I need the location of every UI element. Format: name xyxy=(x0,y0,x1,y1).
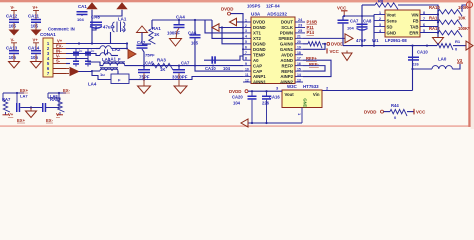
ground xyxy=(31,30,42,36)
svg-text:12: 12 xyxy=(245,78,249,82)
svg-text:VCC: VCC xyxy=(330,49,340,54)
left pin bus xyxy=(373,15,375,46)
svg-text:CA10: CA10 xyxy=(417,49,428,54)
wire XT2 xyxy=(212,20,243,38)
svg-text:CA13: CA13 xyxy=(6,45,18,50)
wire LA1 drop xyxy=(110,32,112,44)
svg-text:AINP2: AINP2 xyxy=(280,74,293,79)
svg-text:SCLK: SCLK xyxy=(281,25,294,30)
svg-text:104: 104 xyxy=(233,101,241,106)
ground xyxy=(9,30,20,36)
ferrite bead FB1 xyxy=(111,74,129,84)
wire xyxy=(35,54,37,61)
power V+ arrow B xyxy=(117,3,127,9)
capacitor CA9 xyxy=(77,11,88,13)
pin VIN xyxy=(420,14,438,16)
svg-text:PDWN: PDWN xyxy=(280,31,293,36)
svg-text:75PF: 75PF xyxy=(145,53,155,58)
pin GND xyxy=(374,32,385,34)
ground arrow down xyxy=(342,53,352,61)
svg-text:CA16: CA16 xyxy=(269,95,280,100)
svg-text:DVDD: DVDD xyxy=(229,89,241,94)
power V3 xyxy=(452,64,460,69)
svg-text:9: 9 xyxy=(245,62,247,66)
pin 3 xyxy=(53,53,66,55)
wire xyxy=(141,33,143,45)
ground xyxy=(31,62,42,69)
pin 7 xyxy=(53,73,66,75)
capacitor CB2 xyxy=(85,52,91,54)
svg-text:100K*: 100K* xyxy=(458,26,470,31)
svg-text:21: 21 xyxy=(297,35,301,39)
wire xyxy=(13,54,15,61)
svg-text:VCC: VCC xyxy=(337,5,347,10)
svg-text:105: 105 xyxy=(31,55,39,60)
svg-text:DVDD: DVDD xyxy=(253,20,265,25)
pin 2 xyxy=(53,48,66,50)
svg-text:VCC: VCC xyxy=(416,109,426,114)
wire cap tops xyxy=(343,15,374,17)
wire xyxy=(79,70,101,73)
svg-text:Sens: Sens xyxy=(387,18,398,23)
svg-text:DGND: DGND xyxy=(253,42,266,47)
svg-text:LA4: LA4 xyxy=(88,81,97,86)
svg-text:CA8: CA8 xyxy=(91,15,100,20)
svg-text:1u: 1u xyxy=(100,72,105,77)
right pin bus xyxy=(437,5,439,33)
svg-text:ADS1232: ADS1232 xyxy=(267,11,287,16)
svg-text:8: 8 xyxy=(423,11,425,15)
wire xyxy=(231,14,244,22)
svg-text:8: 8 xyxy=(245,56,247,60)
wire to port circle xyxy=(462,5,467,12)
ground xyxy=(9,62,20,69)
svg-text:5: 5 xyxy=(245,40,247,44)
svg-text:V+: V+ xyxy=(33,38,39,43)
right bus wires xyxy=(437,12,439,37)
ground xyxy=(26,111,37,118)
wire xyxy=(361,5,363,46)
wire gnd bottom xyxy=(248,122,302,124)
power VCC xyxy=(407,111,414,113)
svg-text:RA12: RA12 xyxy=(429,26,440,31)
svg-text:47uF: 47uF xyxy=(356,38,367,43)
svg-text:23: 23 xyxy=(298,24,302,28)
wire xyxy=(13,23,15,30)
IC W1 LP2951 xyxy=(385,10,420,37)
svg-text:CA7: CA7 xyxy=(350,19,359,24)
svg-text:10K: 10K xyxy=(458,16,466,21)
wire EX- drop xyxy=(48,92,66,94)
svg-text:EX+: EX+ xyxy=(20,88,29,93)
svg-text:5: 5 xyxy=(423,29,425,33)
svg-text:Vout: Vout xyxy=(285,92,295,97)
svg-text:10SPS: 10SPS xyxy=(247,3,261,8)
svg-text:A0: A0 xyxy=(253,58,259,63)
svg-text:DVDD: DVDD xyxy=(331,41,343,46)
svg-text:LA2: LA2 xyxy=(112,47,121,52)
svg-text:FB: FB xyxy=(413,18,419,23)
pin 1 GND xyxy=(301,108,303,124)
svg-text:REFN: REFN xyxy=(281,69,293,74)
port arrow AGND xyxy=(241,119,248,127)
svg-text:CONA1: CONA1 xyxy=(40,32,56,37)
wire AIN chain xyxy=(125,65,243,67)
diode D1 arrow xyxy=(128,50,136,59)
svg-text:CA4: CA4 xyxy=(176,15,185,20)
port arrow IN pair xyxy=(70,68,79,76)
svg-text:R8: R8 xyxy=(378,0,384,4)
port arrow SPEED xyxy=(345,34,353,43)
svg-text:19: 19 xyxy=(297,46,301,50)
wire IN- xyxy=(66,53,88,55)
wire pin6 xyxy=(53,68,69,70)
svg-text:S-: S- xyxy=(56,58,61,63)
wire XT1 xyxy=(205,20,243,33)
svg-text:V+: V+ xyxy=(33,5,39,10)
svg-text:AVDD: AVDD xyxy=(281,52,293,57)
port arrow right border xyxy=(453,45,466,47)
svg-text:DGND: DGND xyxy=(253,47,266,52)
svg-text:105: 105 xyxy=(9,24,17,29)
pin ERR xyxy=(420,32,438,34)
svg-text:Vout: Vout xyxy=(387,12,397,17)
wire xyxy=(412,46,414,91)
port circle top right xyxy=(467,2,473,8)
svg-text:104: 104 xyxy=(347,25,354,30)
svg-text:V-: V- xyxy=(11,5,16,10)
svg-text:W1: W1 xyxy=(372,38,379,43)
svg-text:20: 20 xyxy=(297,40,301,44)
svg-text:DVDD: DVDD xyxy=(364,109,376,114)
svg-text:3: 3 xyxy=(245,29,247,33)
svg-text:REFP: REFP xyxy=(282,63,294,68)
ground xyxy=(170,39,182,47)
svg-text:LA1: LA1 xyxy=(118,17,127,22)
svg-text:7: 7 xyxy=(245,51,247,55)
svg-text:TAB: TAB xyxy=(410,24,419,29)
svg-text:LP2951-08: LP2951-08 xyxy=(385,38,407,43)
svg-text:3: 3 xyxy=(379,23,381,27)
pin FB xyxy=(420,20,438,22)
svg-text:W3C: W3C xyxy=(287,84,298,89)
svg-text:REF-: REF- xyxy=(309,62,319,67)
svg-text:DOUT: DOUT xyxy=(281,20,294,25)
svg-text:1u: 1u xyxy=(91,49,95,53)
wire V- xyxy=(66,58,88,60)
wire Vout xyxy=(248,90,282,92)
svg-text:SPEED: SPEED xyxy=(278,36,293,41)
pin 4 xyxy=(53,58,66,60)
power arrow xyxy=(137,26,148,33)
svg-text:CA8: CA8 xyxy=(363,19,372,24)
svg-text:25: 25 xyxy=(298,29,302,33)
svg-text:RA10: RA10 xyxy=(429,5,440,10)
svg-text:GND: GND xyxy=(387,30,397,35)
svg-text:104: 104 xyxy=(77,17,84,22)
svg-text:100PF: 100PF xyxy=(167,30,180,35)
svg-text:CAP: CAP xyxy=(253,63,262,68)
capacitor CA18 xyxy=(16,104,18,108)
svg-text:1K: 1K xyxy=(154,32,159,37)
svg-text:V-: V- xyxy=(11,38,16,43)
svg-text:4: 4 xyxy=(379,29,381,33)
svg-text:RA1: RA1 xyxy=(152,26,161,31)
svg-text:EX+: EX+ xyxy=(17,118,26,123)
resistor R1 xyxy=(437,43,453,50)
capacitor CA19 xyxy=(42,103,44,112)
svg-text:13: 13 xyxy=(297,78,301,82)
svg-text:1K: 1K xyxy=(160,67,165,72)
svg-text:105: 105 xyxy=(9,55,17,60)
svg-text:V3: V3 xyxy=(457,58,463,63)
svg-text:226: 226 xyxy=(412,61,419,66)
wire S- xyxy=(66,63,70,65)
wire EX- xyxy=(66,48,100,50)
svg-text:GAIN0: GAIN0 xyxy=(280,42,294,47)
svg-text:V+: V+ xyxy=(8,112,14,117)
port arrow DGND xyxy=(212,24,219,32)
capacitor CA16 xyxy=(262,96,271,98)
capacitor CB4 xyxy=(85,61,91,63)
svg-text:VIN: VIN xyxy=(411,12,418,17)
svg-text:1: 1 xyxy=(379,11,381,15)
svg-text:CA11: CA11 xyxy=(28,13,40,18)
wire xyxy=(35,23,37,30)
svg-text:1: 1 xyxy=(245,18,247,22)
wire EX+ drop xyxy=(2,93,4,100)
wires REF/AIN right loops xyxy=(303,60,331,76)
svg-text:2: 2 xyxy=(245,24,247,28)
pin Vout xyxy=(374,14,385,16)
svg-text:AINN1: AINN1 xyxy=(253,80,267,85)
left pin bus xyxy=(242,22,244,60)
svg-text:18: 18 xyxy=(297,51,301,55)
wire AVDD rail xyxy=(343,45,437,47)
svg-text:XT2: XT2 xyxy=(253,36,261,41)
wire xyxy=(92,26,96,30)
pin Sens xyxy=(374,20,385,22)
svg-text:DGND: DGND xyxy=(253,25,266,30)
svg-text:17: 17 xyxy=(297,56,301,60)
resistor R44 xyxy=(384,111,391,113)
port arrow DVDD pin xyxy=(230,18,237,26)
svg-text:LA3: LA3 xyxy=(102,57,111,62)
wire Vin xyxy=(322,90,413,92)
wire to gnd xyxy=(30,108,32,112)
svg-text:AGND: AGND xyxy=(280,58,293,63)
wire xyxy=(91,10,93,44)
svg-text:15: 15 xyxy=(297,67,301,71)
wire pin7 xyxy=(53,73,69,75)
svg-text:1u: 1u xyxy=(79,49,83,53)
svg-text:CA1: CA1 xyxy=(78,4,87,9)
pin SD xyxy=(374,26,385,28)
svg-text:CA10: CA10 xyxy=(205,66,216,71)
svg-text:EX-: EX- xyxy=(63,88,71,93)
pin 5 xyxy=(53,63,66,65)
svg-text:CA7: CA7 xyxy=(181,60,190,65)
resistor RA5 to DVDD xyxy=(303,43,308,45)
svg-text:CA12: CA12 xyxy=(6,13,18,18)
svg-text:3300PF: 3300PF xyxy=(172,75,188,80)
svg-text:10: 10 xyxy=(245,67,249,71)
svg-text:CA20: CA20 xyxy=(232,95,243,100)
ground arrow resistors xyxy=(433,38,444,45)
svg-text:14: 14 xyxy=(297,73,301,77)
ferrite LA8 xyxy=(58,93,60,104)
svg-text:11: 11 xyxy=(245,73,249,77)
svg-text:P11: P11 xyxy=(307,25,315,30)
svg-text:ERR: ERR xyxy=(409,30,419,35)
wire DGND2 xyxy=(222,28,243,44)
svg-text:CA14: CA14 xyxy=(28,45,40,50)
wire V+ net xyxy=(66,43,127,45)
capacitor CB1 xyxy=(73,52,79,54)
svg-text:226: 226 xyxy=(262,101,270,106)
svg-text:6: 6 xyxy=(423,23,425,27)
svg-text:12F-04: 12F-04 xyxy=(266,3,280,8)
svg-text:LA7: LA7 xyxy=(20,94,28,99)
power V+ arrow A xyxy=(87,3,97,9)
svg-text:7: 7 xyxy=(423,17,425,21)
svg-text:GAIN1: GAIN1 xyxy=(280,47,294,52)
svg-text:CAP: CAP xyxy=(253,69,262,74)
svg-text:105: 105 xyxy=(31,24,39,29)
wire REFP row xyxy=(204,56,243,60)
pin 1 xyxy=(53,43,66,45)
svg-text:16: 16 xyxy=(297,62,301,66)
svg-text:SD: SD xyxy=(387,24,393,29)
svg-text:6: 6 xyxy=(245,46,247,50)
ground xyxy=(174,86,187,94)
svg-text:RA3: RA3 xyxy=(157,57,166,62)
svg-text:DVDD: DVDD xyxy=(221,7,233,12)
svg-text:GND: GND xyxy=(303,98,308,107)
pin TAB xyxy=(420,26,438,28)
svg-text:HT7533: HT7533 xyxy=(303,84,319,89)
capacitor CA11b xyxy=(211,56,213,63)
svg-text:U3A: U3A xyxy=(251,11,261,16)
wire AINN row xyxy=(144,77,243,80)
ground xyxy=(138,86,151,94)
wire AINP row xyxy=(195,66,243,72)
svg-text:4: 4 xyxy=(245,35,247,39)
svg-text:P16B: P16B xyxy=(307,19,317,24)
svg-text:104: 104 xyxy=(223,66,231,71)
svg-text:47uF: 47uF xyxy=(103,25,114,30)
svg-text:P14: P14 xyxy=(307,30,315,35)
svg-text:XT1: XT1 xyxy=(253,31,261,36)
wire xyxy=(88,59,103,66)
svg-text:R44: R44 xyxy=(391,103,399,108)
pin 6 xyxy=(53,68,66,70)
capacitor CB3 xyxy=(73,61,79,63)
wire crystal loop xyxy=(152,19,212,21)
net VCC xyxy=(303,44,325,49)
svg-text:TEMP: TEMP xyxy=(253,52,265,57)
svg-text:R1: R1 xyxy=(455,39,461,44)
ferrite LA7 xyxy=(16,93,18,104)
wire SPEED xyxy=(303,37,345,39)
svg-text:LA0: LA0 xyxy=(438,57,447,62)
svg-text:AINP1: AINP1 xyxy=(253,74,266,79)
svg-text:EX-: EX- xyxy=(46,118,54,123)
svg-text:F: F xyxy=(118,57,121,62)
svg-text:Vin: Vin xyxy=(313,92,320,97)
svg-text:2: 2 xyxy=(379,17,381,21)
wire xyxy=(94,10,122,16)
